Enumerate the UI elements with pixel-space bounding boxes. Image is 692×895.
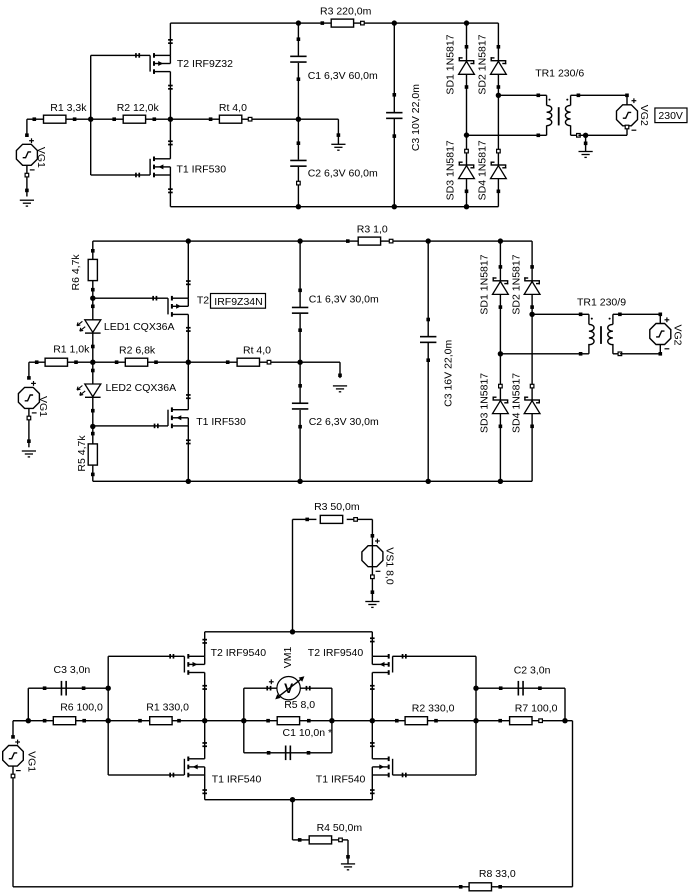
- wire: bottom rail (circuit 1): [170, 206, 498, 207]
- node: right bus on mid wire (circuit 3): [473, 718, 478, 723]
- wire: T1 gate wire (circuit 2): [93, 425, 168, 426]
- resistor R6 100,0 (circuit 3): [43, 719, 47, 723]
- node: bridge AC1 (circuit 1): [464, 132, 469, 137]
- svg-text:C2 6,3V 60,0m: C2 6,3V 60,0m: [308, 168, 378, 180]
- svg-text:R2 6,8k: R2 6,8k: [119, 345, 156, 357]
- svg-text:R2 330,0: R2 330,0: [412, 703, 455, 715]
- resistor R8 33,0 (circuit 3): [459, 885, 463, 889]
- diode SD1 1N5817 (circuit 2): [498, 238, 503, 243]
- svg-text:T1 IRF540: T1 IRF540: [212, 774, 262, 786]
- node: half-bridge output (circuit 1): [168, 117, 173, 122]
- wire: T2 gate wire (circuit 3): [108, 656, 184, 657]
- diode SD3 1N5817 (circuit 2): [500, 354, 501, 482]
- node: bridge AC2 (circuit 1): [496, 93, 501, 98]
- node: gate bus on mid wire (circuit 3): [106, 718, 111, 723]
- svg-text:SD4 1N5817: SD4 1N5817: [510, 373, 522, 433]
- svg-text:R4 50,0m: R4 50,0m: [317, 822, 363, 834]
- svg-text:T2 IRF9540: T2 IRF9540: [211, 647, 267, 659]
- ground (VG1, circuit 1): [20, 200, 34, 201]
- transistor T2 IRF9540 left (circuit 3): [184, 656, 185, 672]
- svg-text:SD4 1N5817: SD4 1N5817: [476, 140, 488, 200]
- node: T2 gate node (circuit 2): [90, 296, 95, 301]
- svg-text:VG2: VG2: [671, 324, 683, 345]
- resistor R3 50,0m (circuit 3): [292, 519, 293, 631]
- voltage source VG1 (circuit 2): [28, 362, 29, 378]
- node: C2/R7 junction (circuit 3): [562, 718, 567, 723]
- node: T1 gate node (circuit 2): [90, 424, 95, 429]
- resistor R5 4,7k (circuit 2): [92, 427, 93, 444]
- svg-text:C2 3,0n: C2 3,0n: [514, 665, 551, 677]
- resistor R1 1,0k (circuit 2): [35, 360, 39, 364]
- wire: AC2 to transformer primary top (circuit 2): [532, 314, 581, 315]
- svg-text:VS1 8,0: VS1 8,0: [383, 547, 395, 585]
- capacitor C3 3,0n (circuit 3): [28, 688, 29, 721]
- resistor R4 50,0m (circuit 3): [292, 800, 293, 840]
- svg-text:T2 IRF9Z32: T2 IRF9Z32: [177, 58, 233, 70]
- transistor T1 IRF530 (circuit 2): [167, 410, 168, 426]
- wire: secondary top to VG2 (circuit 2): [620, 314, 660, 315]
- svg-text:Rt 4,0: Rt 4,0: [243, 345, 271, 357]
- svg-text:Rt 4,0: Rt 4,0: [219, 102, 247, 114]
- resistor Rt 4,0 (circuit 1): [209, 117, 213, 121]
- transistor T1 IRF540 right (circuit 3): [392, 759, 393, 775]
- resistor R2 330,0 (circuit 3): [395, 719, 399, 723]
- resistor R6 4,7k (circuit 2): [92, 241, 93, 259]
- wire: main mid wire (circuit 3): [13, 720, 573, 721]
- svg-text:R2 12,0k: R2 12,0k: [117, 102, 160, 114]
- wire: output mid wire (circuit 1): [27, 119, 339, 120]
- capacitor C1 6,3V 60,0m (circuit 1): [296, 20, 301, 25]
- node: half-bridge output (circuit 2): [186, 360, 191, 365]
- wire: right T2 gate wire (circuit 3): [393, 656, 477, 657]
- capacitor C2 6,3V 60,0m (circuit 1): [298, 119, 299, 160]
- label box IRF9Z34N (circuit 2): [211, 294, 266, 309]
- node: secondary ground tap (circuit 1): [583, 133, 588, 138]
- wire: bottom rail (circuit 2): [93, 481, 532, 482]
- svg-text:R3 1,0: R3 1,0: [357, 224, 388, 236]
- voltage source VG1 (circuit 1): [26, 119, 27, 135]
- resistor R1 330,0 (circuit 3): [138, 719, 142, 723]
- node: loop right on mid wire (circuit 3): [329, 718, 334, 723]
- wire: mid wire (circuit 2): [29, 362, 340, 363]
- capacitor C2 3,0n (circuit 3): [473, 686, 478, 691]
- svg-text:VG1: VG1: [25, 751, 37, 772]
- svg-text:C3 3,0n: C3 3,0n: [54, 664, 91, 676]
- voltmeter VM1 (circuit 3): [277, 677, 300, 700]
- svg-text:T1 IRF530: T1 IRF530: [196, 416, 246, 428]
- svg-text:R8 33,0: R8 33,0: [479, 868, 516, 880]
- svg-text:T2: T2: [197, 294, 209, 306]
- resistor R1 3,3k (circuit 1): [33, 117, 37, 121]
- diode SD3 1N5817 (circuit 1): [466, 135, 467, 207]
- wire: T1 gate wire (circuit 3): [108, 774, 184, 775]
- svg-text:T2 IRF9540: T2 IRF9540: [308, 647, 364, 659]
- svg-text:C2 6,3V 30,0m: C2 6,3V 30,0m: [309, 416, 379, 428]
- capacitor C1 6,3V 30,0m (circuit 2): [297, 238, 302, 243]
- svg-text:LED1 CQX36A: LED1 CQX36A: [104, 321, 175, 333]
- transistor T2 IRF9Z32 (circuit 1): [149, 55, 150, 71]
- wire: secondary bottom to VG2 (circuit 2): [620, 353, 660, 354]
- svg-text:VG1: VG1: [37, 396, 49, 417]
- node: bridge left output (circuit 3): [202, 718, 207, 723]
- wire: top rail (circuit 2): [93, 240, 532, 241]
- wire: AC1 to transformer primary bottom (circuit 1): [467, 135, 539, 136]
- voltage source VG2 230V (circuit 1): [625, 94, 629, 98]
- diode SD2 1N5817 (circuit 2): [531, 241, 532, 314]
- resistor Rt 4,0 (circuit 2): [226, 360, 230, 364]
- node: R3 to top rail (circuit 3): [290, 629, 295, 634]
- svg-text:C3 10V 22,0m: C3 10V 22,0m: [410, 84, 422, 151]
- wire: AC1 to transformer primary bottom (circuit 2): [500, 353, 580, 354]
- diode SD4 1N5817 (circuit 1): [498, 95, 499, 206]
- ground (R4, circuit 3): [347, 840, 348, 864]
- svg-text:LED2 CQX36A: LED2 CQX36A: [106, 382, 177, 394]
- node: gate bus junction (circuit 1): [88, 117, 93, 122]
- LED1 CQX36A (circuit 2): [92, 298, 93, 362]
- transistor T1 IRF540 left (circuit 3): [184, 759, 185, 775]
- wire: T1 gate wire (circuit 1): [91, 174, 150, 175]
- wire: right T1 gate wire (circuit 3): [393, 774, 477, 775]
- svg-text:SD3 1N5817: SD3 1N5817: [445, 140, 457, 200]
- svg-text:VM1: VM1: [282, 647, 294, 669]
- svg-text:R1 330,0: R1 330,0: [146, 702, 189, 714]
- wire: bottom return wire (circuit 3): [13, 886, 573, 887]
- node: bridge right output (circuit 3): [370, 718, 375, 723]
- svg-text:TR1 230/6: TR1 230/6: [535, 68, 584, 80]
- resistor R2 12,0k (circuit 1): [112, 117, 116, 121]
- node: input node on mid wire (circuit 2): [90, 360, 95, 365]
- svg-text:VG2: VG2: [638, 105, 650, 126]
- svg-text:T1 IRF530: T1 IRF530: [177, 164, 227, 176]
- ground (VS1, circuit 3): [365, 601, 379, 602]
- capacitor C3 10V 22,0m (circuit 1): [392, 20, 397, 25]
- capacitor C1 10,0n * (circuit 3): [244, 752, 332, 753]
- diode SD1 1N5817 (circuit 1): [464, 20, 469, 25]
- svg-text:R3 50,0m: R3 50,0m: [314, 501, 360, 513]
- transformer TR1 230/6 (circuit 1): [537, 94, 541, 98]
- wire: T2 gate wire (circuit 1): [91, 55, 150, 56]
- svg-text:SD1 1N5817: SD1 1N5817: [445, 34, 457, 94]
- wire: secondary bottom (circuit 1): [578, 135, 627, 136]
- wire: voltmeter loop left (circuit 3): [243, 688, 244, 753]
- svg-text:SD1 1N5817: SD1 1N5817: [478, 254, 490, 314]
- svg-text:R5 8,0: R5 8,0: [284, 699, 315, 711]
- svg-text:R5 4,7k: R5 4,7k: [76, 435, 88, 472]
- voltage source VS1 8,0 (circuit 3): [372, 519, 373, 545]
- transistor T1 IRF530 (circuit 1): [149, 159, 150, 175]
- ground (output, circuit 1): [338, 119, 339, 135]
- wire: right feedback drop (circuit 3): [572, 721, 573, 887]
- transformer TR1 230/9 (circuit 2): [579, 313, 583, 317]
- wire: voltmeter to loop right (circuit 3): [300, 688, 332, 689]
- svg-text:R6 4,7k: R6 4,7k: [70, 254, 82, 291]
- svg-text:C1 6,3V 60,0m: C1 6,3V 60,0m: [308, 70, 378, 82]
- resistor R7 100,0 (circuit 3): [498, 719, 502, 723]
- svg-text:R1 1,0k: R1 1,0k: [53, 343, 90, 355]
- node: C3 to gate bus (circuit 3): [106, 686, 111, 691]
- wire: C2 right drop (circuit 3): [564, 688, 565, 721]
- resistor R3 1,0 (circuit 2): [346, 239, 350, 243]
- resistor R5 8,0 (circuit 3): [266, 719, 270, 723]
- svg-text:T1 IRF540: T1 IRF540: [316, 774, 366, 786]
- svg-text:C1 10,0n *: C1 10,0n *: [283, 727, 333, 739]
- svg-text:R1 3,3k: R1 3,3k: [50, 102, 87, 114]
- ground (output, circuit 2): [339, 362, 340, 378]
- ground (VG1, circuit 2): [22, 450, 36, 451]
- svg-text:SD3 1N5817: SD3 1N5817: [478, 373, 490, 433]
- diode SD4 1N5817 (circuit 2): [531, 314, 532, 481]
- wire: T2 gate wire (circuit 2): [93, 298, 168, 299]
- svg-text:VG1: VG1: [35, 147, 47, 168]
- svg-text:IRF9Z34N: IRF9Z34N: [214, 296, 262, 308]
- wire: H-bridge bottom rail (circuit 3): [205, 799, 373, 800]
- svg-text:R7 100,0: R7 100,0: [515, 703, 558, 715]
- capacitor C2 6,3V 30,0m (circuit 2): [299, 362, 300, 403]
- transistor T2 IRF9Z34N (circuit 2): [167, 298, 168, 314]
- wire: gate bus vertical (circuit 1): [90, 55, 91, 175]
- wire: right gate bus (circuit 3): [475, 656, 476, 775]
- wire: AC2 to transformer primary top (circuit 1): [498, 95, 538, 96]
- node: bridge AC1 (circuit 2): [498, 351, 503, 356]
- node: loop left on mid wire (circuit 3): [241, 718, 246, 723]
- label 230V (boxed value of VG2): [655, 108, 687, 123]
- LED2 CQX36A (circuit 2): [92, 362, 93, 426]
- svg-text:230V: 230V: [658, 110, 683, 122]
- voltage source VG1 (circuit 3): [13, 720, 28, 721]
- node: bottom rail to R4 (circuit 3): [290, 797, 295, 802]
- svg-text:C1 6,3V 30,0m: C1 6,3V 30,0m: [309, 293, 379, 305]
- resistor R2 6,8k (circuit 2): [115, 360, 119, 364]
- diode SD2 1N5817 (circuit 1): [498, 23, 499, 95]
- wire: left gate bus (circuit 3): [108, 656, 109, 775]
- svg-text:R3 220,0m: R3 220,0m: [320, 6, 372, 18]
- wire: secondary top to VG2 (circuit 1): [578, 95, 627, 96]
- svg-text:SD2 1N5817: SD2 1N5817: [510, 254, 522, 314]
- svg-text:R6 100,0: R6 100,0: [60, 702, 103, 714]
- ground (secondary, circuit 1): [585, 135, 586, 151]
- node: VG1/C3 junction (circuit 3): [26, 718, 31, 723]
- resistor R3 220,0m (circuit 1): [321, 21, 325, 25]
- svg-text:C3 16V 22,0m: C3 16V 22,0m: [443, 339, 455, 406]
- wire: top supply rail (circuit 1): [170, 22, 498, 23]
- svg-text:TR1 230/9: TR1 230/9: [577, 297, 626, 309]
- wire: H-bridge top rail (circuit 3): [205, 631, 373, 632]
- voltage source VG2 (circuit 2): [659, 313, 663, 317]
- node: bridge AC2 (circuit 2): [529, 312, 534, 317]
- svg-text:SD2 1N5817: SD2 1N5817: [476, 34, 488, 94]
- transistor T2 IRF9540 right (circuit 3): [392, 656, 393, 672]
- capacitor C3 16V 22,0m (circuit 2): [426, 238, 431, 243]
